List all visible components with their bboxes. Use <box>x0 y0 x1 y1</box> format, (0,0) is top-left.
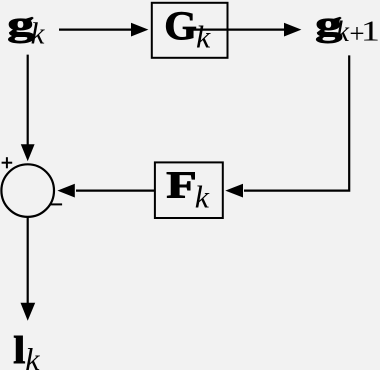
label G_k <box>164 3 211 55</box>
svg-text:F: F <box>166 163 197 206</box>
wire summing junction down to l_k <box>21 218 36 321</box>
svg-text:k: k <box>31 15 46 50</box>
wire g_k down to summing junction <box>21 55 35 162</box>
summing junction circle <box>1 164 54 217</box>
node g_k+1 label <box>315 4 380 48</box>
svg-text:k: k <box>195 179 210 215</box>
svg-text:k: k <box>25 341 40 370</box>
node g_k label <box>7 4 45 51</box>
node l_k label <box>13 328 40 370</box>
minus sign <box>50 203 62 205</box>
wire g_k+1 down and left to F_k <box>225 55 349 197</box>
wire g_k to G_k <box>59 23 148 37</box>
svg-text:l: l <box>13 328 25 370</box>
block F_k box <box>155 162 223 218</box>
svg-text:k: k <box>336 16 350 48</box>
svg-text:k: k <box>196 18 211 54</box>
plus sign <box>2 157 13 168</box>
svg-text:1: 1 <box>361 16 380 47</box>
wire G_k to g_k+1 <box>190 23 301 37</box>
label F_k <box>166 163 210 214</box>
block G_k box <box>152 3 228 58</box>
wire F_k to summing junction <box>57 184 154 198</box>
svg-text:G: G <box>164 3 197 48</box>
